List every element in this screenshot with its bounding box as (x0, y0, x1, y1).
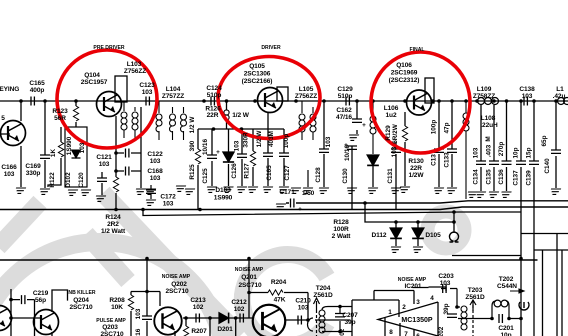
ground C125 (205, 187, 217, 192)
svg-text:2SC1957: 2SC1957 (81, 79, 108, 86)
svg-text:102: 102 (234, 306, 245, 313)
ground C162 (347, 135, 359, 140)
svg-text:103: 103 (150, 158, 161, 165)
svg-text:400p: 400p (30, 87, 45, 94)
wire L103 secondary return (140, 107, 142, 188)
bias wire y129 (198, 128, 284, 130)
svg-text:47p: 47p (444, 122, 451, 133)
ground C121 (94, 196, 106, 201)
svg-text:FINAL: FINAL (410, 47, 425, 53)
capacitor C133 47p (451, 101, 453, 187)
ground D104 (372, 166, 374, 187)
resistor R204 47K (249, 259, 308, 319)
svg-text:1/2 W: 1/2 W (189, 116, 196, 134)
node TP (452, 220, 456, 224)
svg-text:1: 1 (388, 309, 392, 316)
svg-text:Z756ZZ: Z756ZZ (124, 68, 146, 75)
svg-text:R207: R207 (191, 328, 207, 335)
svg-text:2 Watt: 2 Watt (332, 233, 352, 240)
T202 arrow (510, 289, 524, 293)
Q204 base wire (11, 317, 41, 319)
coil L105 winding 2 (312, 107, 314, 140)
transistor T201 left edge (0, 306, 12, 331)
svg-text:C201: C201 (498, 325, 514, 332)
resistor R127 330R (252, 129, 254, 186)
wire C122 (116, 152, 141, 154)
svg-text:D103: D103 (215, 187, 231, 194)
svg-text:103: 103 (325, 136, 332, 147)
svg-text:1/50: 1/50 (302, 190, 315, 197)
svg-text:103: 103 (298, 305, 309, 312)
capacitor C165 on keying line (31, 97, 34, 106)
svg-text:C166: C166 (1, 164, 17, 171)
Q204 collector wire (52, 290, 68, 336)
svg-text:390: 390 (189, 140, 196, 151)
capacitor C165b (267, 112, 269, 186)
transformer T203 (470, 300, 476, 311)
transformer T204 secondary (322, 307, 352, 332)
svg-text:R123: R123 (52, 108, 68, 115)
capacitor C128 (323, 101, 325, 187)
wire R208 node (131, 259, 160, 307)
svg-text:L108: L108 (481, 115, 496, 122)
capacitor C123 on line (146, 97, 149, 106)
svg-text:C168: C168 (147, 168, 163, 175)
transistor Q201 (253, 305, 286, 336)
svg-text:L106: L106 (384, 105, 399, 112)
transformer T204 arrow (314, 298, 320, 310)
svg-text:100p: 100p (431, 120, 438, 135)
ground C127 (277, 187, 289, 192)
svg-text:56R: 56R (54, 115, 66, 122)
Q104 emitter column / resistor R124 (115, 116, 117, 210)
ground D102 box right (79, 190, 91, 195)
svg-text:1/2 W: 1/2 W (256, 130, 263, 148)
ground C130 (345, 188, 357, 193)
svg-text:103: 103 (522, 93, 533, 100)
svg-text:C210: C210 (295, 298, 311, 305)
capacitor C138 on line (524, 97, 527, 106)
resistor R123 (75, 101, 77, 127)
svg-text:D112: D112 (372, 232, 387, 239)
svg-text:47K: 47K (274, 297, 286, 304)
ground C136 (500, 192, 512, 197)
capacitor C140 (555, 101, 557, 188)
svg-text:4: 4 (430, 295, 434, 302)
svg-text:T204: T204 (316, 285, 331, 292)
transistor Q104 2SC1957 (97, 92, 122, 117)
electrolytic C162 47/16 (356, 101, 358, 134)
svg-text:2SC710: 2SC710 (69, 304, 93, 311)
ground D112 (389, 247, 401, 252)
svg-text:103: 103 (135, 308, 142, 319)
wire T202 secondary (458, 318, 521, 320)
node emitter/C122 (114, 151, 118, 155)
resistor R208 10K (130, 292, 132, 336)
svg-text:D201: D201 (217, 326, 233, 333)
svg-text:L104: L104 (166, 86, 181, 93)
coil L108 .22uH (465, 101, 467, 199)
transistor Q105 2SC1306 (258, 88, 283, 113)
capacitor C219 (11, 299, 35, 301)
svg-text:(2SC2166): (2SC2166) (242, 78, 273, 85)
svg-text:7: 7 (404, 331, 408, 336)
transistor Q204 (34, 310, 59, 335)
svg-text:L103: L103 (127, 61, 142, 68)
resistor R125 390 (197, 129, 199, 209)
node rail A x200 (198, 208, 202, 212)
test point omega symbol (450, 232, 459, 242)
ground C165b (261, 187, 273, 192)
svg-text:.403: .403 (486, 144, 493, 157)
svg-text:Z757ZZ: Z757ZZ (162, 93, 184, 100)
wire secondary rail (143, 210, 521, 216)
svg-text:C169: C169 (25, 163, 41, 170)
svg-text:R204: R204 (271, 279, 287, 286)
svg-text:C139: C139 (526, 170, 533, 186)
ground D102 box left (66, 190, 78, 195)
svg-text:C129: C129 (337, 86, 353, 93)
svg-text:Q106: Q106 (396, 62, 412, 69)
coil L103 winding 1 (123, 101, 125, 138)
svg-text:1/2 W: 1/2 W (232, 112, 250, 119)
svg-text:C207: C207 (342, 312, 358, 319)
svg-text:Z758ZZ: Z758ZZ (473, 93, 495, 100)
svg-text:Z756ZZ: Z756ZZ (295, 93, 317, 100)
resistor R207 (185, 318, 187, 326)
svg-text:Q202: Q202 (171, 281, 187, 288)
svg-text:22R: 22R (410, 165, 422, 172)
svg-text:DRIVER: DRIVER (261, 45, 281, 51)
svg-text:103: 103 (440, 280, 451, 287)
svg-text:L109: L109 (477, 86, 492, 93)
capacitor C216 (146, 292, 148, 336)
main signal wire y=101 (0, 100, 568, 102)
svg-text:(2SC2312): (2SC2312) (389, 77, 420, 84)
capacitor C131 (395, 142, 397, 209)
ground C169 (38, 189, 50, 194)
svg-text:510p: 510p (207, 92, 222, 99)
ground rail y203 right (286, 201, 568, 203)
svg-text:PRE DRIVER: PRE DRIVER (93, 45, 124, 51)
wire C169 (44, 101, 46, 188)
red circle FINAL (371, 52, 470, 153)
svg-text:R128: R128 (333, 219, 349, 226)
svg-text:103: 103 (391, 146, 398, 157)
svg-text:103: 103 (163, 201, 174, 208)
svg-text:C172: C172 (160, 194, 176, 201)
svg-text:IC201: IC201 (405, 283, 422, 290)
ground rail y209 (0, 207, 568, 210)
svg-text:R130: R130 (408, 158, 424, 165)
resistor R126 22R (226, 101, 228, 129)
diode D103 1S990 (228, 129, 230, 186)
ground C132 (432, 188, 444, 193)
node D105 (416, 220, 420, 224)
svg-text:Z561D: Z561D (465, 294, 485, 301)
svg-text:+: + (362, 122, 366, 129)
electrolytic C171 1/50 (291, 199, 294, 208)
svg-text:C203: C203 (438, 273, 454, 280)
capacitor C124 on line (211, 97, 214, 106)
svg-text:.22uH: .22uH (480, 122, 498, 129)
ground extra L103 (144, 189, 156, 194)
svg-text:102: 102 (193, 304, 204, 311)
capacitor C201 10p (499, 314, 502, 323)
svg-text:C138: C138 (519, 86, 535, 93)
svg-text:M: M (485, 136, 492, 141)
svg-text:Q201: Q201 (241, 274, 257, 281)
ground D105 (411, 247, 423, 252)
node secondary rail start (141, 208, 145, 212)
svg-text:Q104: Q104 (84, 72, 100, 79)
svg-text:10/16: 10/16 (202, 139, 209, 155)
svg-text:270p: 270p (498, 142, 505, 157)
svg-text:C133: C133 (444, 152, 451, 168)
ground C133 (445, 188, 457, 193)
svg-text:L1: L1 (556, 86, 564, 93)
resistor R122 1K (48, 127, 61, 187)
diode D201 (219, 313, 229, 324)
svg-text:C165: C165 (266, 165, 273, 181)
svg-text:C124: C124 (206, 85, 222, 92)
ground C134 (474, 192, 486, 197)
svg-text:C162: C162 (336, 107, 352, 114)
svg-text:+: + (298, 206, 302, 213)
capacitor C168 (126, 167, 129, 176)
svg-text:2R2: 2R2 (107, 221, 119, 228)
node base wire (9, 316, 13, 320)
wire bus x541 (543, 250, 563, 336)
capacitor C126 (241, 129, 243, 186)
transformer T202 primary (492, 301, 509, 318)
svg-text:15p: 15p (526, 147, 533, 158)
svg-text:Q105: Q105 (249, 63, 265, 70)
svg-text:39p: 39p (443, 303, 450, 314)
svg-text:2SC1969: 2SC1969 (391, 70, 418, 77)
svg-text:Q203: Q203 (102, 324, 118, 331)
svg-text:1/2W: 1/2W (409, 172, 425, 179)
svg-text:D105: D105 (425, 232, 441, 239)
diode D102 1S990 (72, 150, 81, 158)
ground C171 (274, 204, 286, 209)
antenna jack symbol (519, 302, 529, 310)
svg-text:1S990: 1S990 (66, 136, 73, 155)
node C219 left (9, 298, 13, 302)
wire C168 (116, 170, 141, 172)
svg-text:KEYING: KEYING (0, 86, 19, 93)
coil L103 winding 2 (134, 107, 136, 138)
svg-text:R125: R125 (189, 164, 196, 180)
svg-text:NB KILLER: NB KILLER (68, 290, 95, 296)
Q105 collector tab (277, 87, 288, 101)
wire left bottom feed (11, 289, 35, 336)
svg-text:R127: R127 (244, 163, 251, 179)
svg-text:103: 103 (79, 142, 86, 153)
svg-text:10p: 10p (501, 332, 512, 336)
svg-text:C213: C213 (190, 297, 206, 304)
coil L105 winding 1 (301, 101, 303, 140)
node bus x535 (519, 257, 523, 261)
capacitor C135 (493, 105, 495, 191)
svg-text:C219: C219 (33, 290, 49, 297)
transformer T204 primary loop (308, 318, 314, 331)
red circle PRE DRIVER (57, 50, 157, 148)
capacitor C213 (196, 314, 199, 323)
capacitor C136 (506, 101, 508, 191)
transistor Q202 (154, 307, 182, 335)
svg-text:100p: 100p (283, 134, 290, 149)
diode D112 (390, 228, 402, 238)
svg-text:MC1350P: MC1350P (401, 317, 432, 324)
capacitor C202 (447, 314, 457, 317)
svg-text:R122: R122 (49, 172, 56, 188)
svg-text:1S990: 1S990 (214, 195, 233, 202)
ground R129 (398, 187, 410, 192)
svg-text:10p: 10p (513, 147, 520, 158)
ground spare right (289, 188, 301, 193)
capacitor C207 (339, 307, 341, 332)
svg-text:R124: R124 (105, 214, 121, 221)
svg-text:+: + (216, 149, 220, 156)
box around D102 (65, 127, 87, 187)
svg-text:2: 2 (402, 304, 406, 311)
junction dots on main line (19, 99, 558, 103)
ground Q103 emitter (14, 188, 26, 193)
svg-text:C121: C121 (96, 154, 112, 161)
svg-text:T202: T202 (499, 276, 514, 283)
svg-text:C125: C125 (202, 168, 209, 184)
svg-text:47/16: 47/16 (336, 114, 352, 121)
svg-text:202: 202 (339, 328, 346, 336)
svg-text:C136: C136 (498, 169, 505, 185)
svg-text:3: 3 (416, 299, 420, 306)
svg-text:R208: R208 (109, 297, 125, 304)
svg-text:216: 216 (135, 328, 142, 336)
node R124 rail (114, 208, 118, 212)
ground C131 (389, 188, 401, 193)
node Q201 out (306, 318, 310, 322)
electrolytic C125 (211, 129, 213, 186)
node D201 (208, 316, 212, 320)
capacitor C169 (40, 155, 50, 158)
svg-text:5: 5 (1, 115, 5, 122)
capacitor C127 (283, 129, 285, 186)
wire D112/D105 top (365, 203, 454, 232)
svg-text:L105: L105 (299, 86, 314, 93)
diode D105 (412, 228, 424, 238)
node diode rail (363, 201, 367, 205)
svg-text:C137: C137 (513, 170, 520, 186)
svg-text:6R/2W: 6R/2W (392, 123, 399, 143)
coil L104 winding 2 (172, 107, 174, 140)
svg-text:330R: 330R (243, 132, 250, 148)
capacitor C212 (240, 314, 243, 323)
ground near R125 (183, 189, 195, 194)
svg-text:C140: C140 (544, 158, 551, 174)
capacitor C122 (126, 149, 129, 158)
svg-text:103: 103 (142, 89, 153, 96)
svg-text:103: 103 (99, 161, 110, 168)
diode D104 (367, 155, 379, 165)
svg-text:2SC710: 2SC710 (238, 282, 262, 289)
svg-text:103: 103 (473, 147, 480, 158)
svg-text:R129: R129 (385, 125, 392, 141)
capacitor C121 (101, 172, 103, 195)
coil L109 on line (478, 98, 499, 105)
transistor Q106 2SC1969 (407, 90, 432, 115)
svg-text:2SC1306: 2SC1306 (244, 71, 271, 78)
svg-text:103: 103 (150, 175, 161, 182)
watermark letter n (bottom-left) (0, 193, 240, 336)
svg-text:.42u: .42u (553, 93, 566, 100)
svg-text:C128: C128 (315, 167, 322, 183)
Q103 collector wire (0, 101, 21, 187)
capacitor C129 on line (346, 97, 349, 106)
svg-text:10/16: 10/16 (344, 145, 351, 161)
svg-text:C131: C131 (387, 168, 394, 184)
svg-text:39p: 39p (345, 319, 356, 326)
svg-text:403M: 403M (268, 131, 275, 147)
node emitter/C168 (114, 169, 118, 173)
coil L106 1u2 (372, 101, 374, 154)
capacitor C132 (438, 101, 440, 187)
svg-text:C544N: C544N (497, 283, 517, 290)
svg-text:C122: C122 (147, 151, 163, 158)
svg-text:202: 202 (438, 326, 445, 336)
watermark letter o (right-middle) (428, 212, 465, 249)
ground R127 (246, 187, 258, 192)
ground L105 return (307, 170, 309, 187)
svg-text:C126: C126 (231, 163, 238, 179)
IC201 triangle (378, 302, 438, 336)
svg-text:10K: 10K (111, 304, 123, 311)
svg-text:C171: C171 (279, 189, 295, 196)
svg-text:Z561D: Z561D (313, 292, 333, 299)
supply rail y259 (0, 259, 538, 261)
svg-text:Q204: Q204 (73, 297, 89, 304)
svg-text:103: 103 (234, 140, 241, 151)
ground L103 return (134, 189, 146, 194)
capacitor C203 (441, 289, 460, 308)
svg-text:22R: 22R (207, 112, 219, 119)
svg-text:C13: C13 (431, 154, 438, 166)
watermark letter c (bottom-centre) (242, 255, 327, 336)
red circle DRIVER (218, 57, 320, 139)
svg-text:1K: 1K (50, 149, 57, 158)
Q104 collector tab (115, 76, 127, 102)
svg-text:510p: 510p (338, 93, 353, 100)
capacitor C139 (533, 101, 535, 336)
svg-text:103: 103 (4, 171, 15, 178)
svg-text:T203: T203 (468, 287, 483, 294)
svg-text:NOISE AMP: NOISE AMP (162, 274, 191, 280)
svg-text:56p: 56p (35, 297, 46, 304)
node T202 (490, 317, 494, 321)
electrolytic C130 10/16 (351, 146, 353, 209)
ground C135 (487, 192, 499, 197)
ground C128 (317, 188, 329, 193)
transistor Q103 (left edge) (1, 121, 26, 146)
IC201 pin cells (352, 287, 446, 336)
node D112 (394, 220, 398, 224)
svg-text:1u2: 1u2 (386, 112, 397, 119)
svg-text:D102: D102 (65, 172, 72, 188)
svg-text:1/2 Watt: 1/2 Watt (101, 228, 126, 235)
svg-text:C165: C165 (29, 80, 45, 87)
resistor R129 (404, 112, 406, 186)
svg-text:100R: 100R (333, 226, 349, 233)
